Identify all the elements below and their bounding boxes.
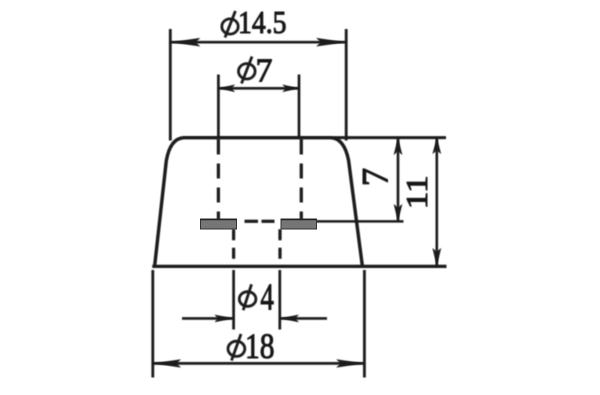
svg-text:7: 7 <box>256 52 273 89</box>
svg-text:14.5: 14.5 <box>238 4 287 40</box>
svg-text:18: 18 <box>245 326 275 366</box>
svg-text:11: 11 <box>399 175 434 209</box>
svg-text:4: 4 <box>260 277 274 319</box>
svg-text:7: 7 <box>356 168 397 187</box>
